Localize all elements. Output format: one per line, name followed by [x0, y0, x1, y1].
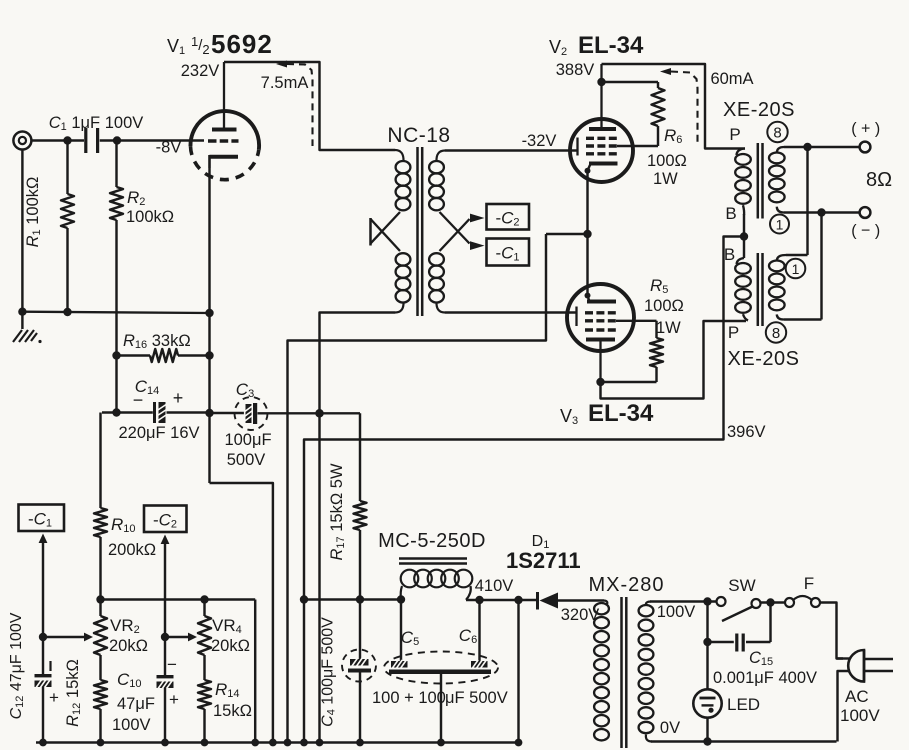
label VR4 — [211, 616, 250, 655]
svg-text:388V: 388V — [556, 61, 595, 79]
choke MC-5-250D — [399, 559, 472, 600]
svg-text:MX-280: MX-280 — [588, 574, 664, 596]
svg-text:μF 500V: μF 500V — [445, 689, 508, 707]
lamp LED — [693, 602, 721, 742]
label terminal 1 upper — [770, 215, 789, 234]
svg-text:5692: 5692 — [211, 29, 273, 59]
label C4 — [320, 617, 338, 727]
capacitor C12 — [35, 637, 52, 743]
svg-text:+: + — [169, 690, 179, 709]
tube V1 cathode — [210, 155, 239, 168]
svg-text:410V: 410V — [475, 577, 514, 595]
tube V2 plate — [589, 64, 616, 129]
tube V3 cathode — [585, 293, 617, 302]
label D1 — [506, 533, 581, 573]
MX-280 core — [622, 597, 627, 748]
svg-text:232V: 232V — [181, 62, 220, 80]
AC plug — [837, 650, 894, 682]
MX-280 HV winding — [594, 601, 609, 741]
wire SW to fuse — [761, 598, 786, 606]
NC-18 core — [418, 147, 423, 316]
label 410V — [475, 577, 514, 595]
fuse F — [785, 596, 820, 607]
svg-text:R16 33kΩ: R16 33kΩ — [123, 332, 191, 351]
svg-text:100Ω: 100Ω — [647, 152, 687, 170]
svg-text:-8V: -8V — [156, 139, 182, 157]
NC-18 secondary centre taps — [440, 212, 485, 251]
svg-text:( + ): ( + ) — [851, 121, 880, 138]
diode D1 — [538, 592, 605, 610]
XE-20S lower core — [758, 253, 763, 326]
label 0V — [660, 719, 680, 737]
svg-text:MC-5-250D: MC-5-250D — [378, 530, 486, 552]
svg-text:P: P — [729, 125, 740, 144]
label XE-20S upper — [723, 99, 795, 121]
tube V2 grids — [578, 138, 618, 156]
svg-text:1: 1 — [792, 261, 800, 277]
wire B+ rail — [304, 595, 405, 603]
NC-18 secondary winding — [429, 161, 444, 302]
label NC-18 — [387, 124, 450, 147]
capacitor C6 — [478, 600, 480, 661]
label C12 marks — [49, 661, 59, 707]
label V3 — [560, 400, 654, 427]
label SW — [728, 576, 755, 595]
tube V2 cathode — [585, 164, 618, 174]
switch SW — [717, 597, 761, 621]
wire -C2 arrow — [161, 535, 170, 642]
wire 410V node — [466, 596, 536, 604]
net box -C1 (grid return) — [487, 239, 530, 266]
ground symbol — [13, 330, 42, 343]
resistor R12 — [94, 680, 107, 743]
svg-text:20kΩ: 20kΩ — [109, 637, 148, 655]
svg-text:500V: 500V — [227, 451, 266, 469]
label VR2 — [109, 616, 148, 655]
svg-text:( − ): ( − ) — [851, 223, 880, 240]
svg-text:8Ω: 8Ω — [866, 169, 892, 191]
XE-20S upper secondary — [769, 153, 785, 203]
VR2 wiper arrow — [43, 633, 93, 642]
tube V3 grids — [577, 307, 617, 331]
wire 0V line — [651, 737, 837, 745]
wire plug return — [838, 671, 851, 742]
wire ground bus — [22, 308, 209, 316]
label C10 marks — [167, 655, 179, 709]
svg-text:0.001μF 400V: 0.001μF 400V — [713, 669, 817, 687]
svg-text:F: F — [804, 574, 814, 593]
wire lower secondary bottom — [777, 213, 822, 320]
label V1 — [167, 29, 273, 59]
resistor R17 — [354, 413, 367, 603]
current arrow 7.5mA — [276, 61, 313, 147]
wire upper secondary to minus — [777, 207, 860, 217]
label P lower — [728, 323, 739, 342]
label R16 — [123, 332, 191, 351]
label (-) — [851, 223, 880, 240]
svg-text:396V: 396V — [727, 423, 766, 441]
wire V1 plate feed — [224, 62, 395, 150]
output terminal minus — [860, 207, 871, 218]
resistor R10 — [94, 413, 107, 600]
svg-text:LED: LED — [727, 695, 760, 714]
wire input jack to C1 — [32, 136, 85, 144]
label P upper — [729, 125, 740, 144]
svg-text:100V: 100V — [657, 603, 696, 621]
label R1 — [24, 177, 43, 248]
label -8V — [156, 139, 182, 157]
label C10 — [112, 670, 155, 734]
capacitor C10 — [157, 637, 174, 743]
current arrow 60mA — [660, 68, 698, 143]
capacitor C15 — [703, 603, 770, 652]
svg-text:100V: 100V — [112, 716, 151, 734]
label R10 — [108, 515, 156, 559]
XE-20S lower secondary — [769, 261, 785, 311]
label C5 — [401, 628, 419, 648]
wire NC-18 primary bottom drop — [315, 313, 395, 743]
label C12 — [8, 612, 26, 719]
label R5 — [644, 276, 684, 337]
label C15 — [749, 649, 773, 668]
wire bias top rail — [96, 595, 255, 603]
wire lower secondary top — [777, 147, 808, 261]
capacitor C1 — [86, 128, 98, 153]
svg-text:20kΩ: 20kΩ — [211, 637, 250, 655]
label 7.5mA — [261, 74, 309, 92]
input jack J1 — [13, 132, 31, 150]
label MC-5-250D — [378, 530, 486, 552]
wire B link — [740, 214, 748, 258]
svg-text:100 + 100: 100 + 100 — [372, 689, 446, 707]
label R17 — [328, 463, 347, 560]
wire jack ground drop — [18, 150, 26, 330]
svg-text:100Ω: 100Ω — [644, 297, 684, 315]
NC-18 primary centre tap — [371, 212, 401, 251]
svg-text:XE-20S: XE-20S — [728, 348, 800, 370]
label -32V — [522, 132, 557, 150]
wire bottom rail — [36, 739, 522, 747]
VR4 wiper arrow — [165, 633, 197, 642]
svg-text:+: + — [173, 388, 184, 408]
resistor R5 — [596, 321, 663, 386]
wire upper secondary to plus — [777, 143, 860, 153]
label MX-280 — [588, 574, 664, 596]
svg-text:8: 8 — [772, 325, 780, 342]
net box -C1 (bias feed) — [19, 505, 65, 532]
XE-20S lower primary — [735, 258, 751, 321]
label C1 value — [49, 114, 144, 133]
svg-text:-32V: -32V — [522, 132, 557, 150]
svg-text:100μF: 100μF — [224, 431, 271, 449]
svg-text:R1 100kΩ: R1 100kΩ — [24, 177, 43, 248]
wire cathode column — [205, 309, 213, 483]
wire -C1 arrow — [39, 534, 48, 642]
svg-text:B: B — [725, 204, 736, 223]
resistor R14 — [198, 680, 211, 743]
label B upper — [725, 204, 736, 223]
label R12 — [64, 659, 83, 727]
label 100V winding — [657, 603, 696, 621]
NC-18 secondary top lead — [436, 151, 445, 162]
potentiometer VR2 — [94, 600, 107, 681]
svg-text:EL-34: EL-34 — [578, 32, 644, 59]
svg-text:15kΩ: 15kΩ — [213, 702, 252, 720]
svg-text:220μF 16V: 220μF 16V — [118, 424, 199, 442]
svg-text:EL-34: EL-34 — [588, 400, 654, 427]
resistor R1 — [61, 141, 74, 313]
label C3 — [224, 380, 271, 469]
svg-text:AC: AC — [845, 687, 869, 706]
capacitor C4 — [342, 600, 376, 743]
wire bias rail drop — [254, 600, 256, 743]
svg-text:+: + — [49, 688, 59, 707]
label 320V — [561, 606, 600, 624]
svg-text:200kΩ: 200kΩ — [108, 541, 156, 559]
wire B junction to 396V — [300, 237, 744, 743]
capacitor C3 — [210, 397, 361, 430]
svg-text:0V: 0V — [660, 719, 680, 737]
tube V3 envelope — [567, 284, 634, 351]
label F — [804, 574, 814, 593]
svg-text:100kΩ: 100kΩ — [126, 208, 174, 226]
label LED — [727, 695, 760, 714]
wire C1 to V1 grid — [100, 136, 204, 144]
wire V2 plate feed — [602, 64, 746, 149]
wire cathode tie — [546, 171, 592, 296]
wire ground bus drop — [210, 483, 273, 743]
tube V2 envelope — [570, 119, 633, 182]
wire mains top — [650, 597, 717, 605]
svg-text:P: P — [728, 323, 739, 342]
net box -C2 (grid return) — [487, 204, 530, 230]
svg-text:1S2711: 1S2711 — [506, 548, 581, 573]
resistor R6 — [602, 82, 665, 146]
svg-text:SW: SW — [728, 576, 755, 595]
label 388V — [556, 61, 595, 79]
label 232V — [181, 62, 220, 80]
label 396V — [727, 423, 766, 441]
svg-text:7.5mA: 7.5mA — [261, 74, 309, 92]
resistor R16 — [112, 349, 209, 362]
label C14 — [118, 377, 199, 442]
svg-text:−: − — [167, 655, 177, 674]
svg-text:XE-20S: XE-20S — [723, 99, 795, 121]
svg-text:1: 1 — [776, 217, 784, 233]
svg-text:100V: 100V — [840, 706, 880, 725]
svg-text:320V: 320V — [561, 606, 600, 624]
resistor R2 — [110, 141, 123, 413]
svg-text:R12 15kΩ: R12 15kΩ — [64, 659, 83, 727]
label R2 — [126, 188, 174, 226]
net box -C2 (bias feed) — [144, 506, 187, 533]
wire V1 cathode to ground bus — [208, 168, 210, 313]
wire cathode to bias network — [288, 234, 547, 743]
label terminal 8 lower — [766, 322, 786, 342]
svg-text:1W: 1W — [653, 170, 678, 188]
NC-18 secondary bottom lead — [436, 302, 445, 313]
XE-20S upper primary — [735, 149, 751, 216]
label terminal 1 lower — [786, 259, 806, 279]
wire V3 plate to lower P — [601, 321, 747, 399]
wire 410V drop — [517, 600, 519, 743]
MX-280 mains winding — [639, 602, 654, 742]
label V2 — [549, 32, 644, 59]
label C6 — [459, 626, 477, 646]
svg-text:47μF: 47μF — [117, 695, 155, 713]
capacitor C14 — [102, 402, 210, 423]
NC-18 primary winding — [396, 161, 411, 302]
svg-text:60mA: 60mA — [710, 70, 753, 88]
svg-text:NC-18: NC-18 — [387, 124, 450, 147]
NC-18 primary top lead — [395, 150, 404, 162]
label XE-20S lower — [728, 348, 800, 370]
svg-text:B: B — [724, 245, 735, 264]
wire fuse to plug — [820, 603, 843, 659]
capacitor block C5 C6 — [384, 652, 498, 743]
label C15 value — [713, 669, 817, 687]
tube V1 plate — [212, 62, 237, 130]
label R6 — [647, 126, 687, 188]
svg-text:1W: 1W — [656, 319, 681, 337]
label C5C6 value — [372, 689, 508, 707]
label (+) — [851, 121, 880, 138]
label B lower — [724, 245, 735, 264]
NC-18 primary bottom lead — [395, 302, 404, 313]
tube V1 envelope (half 5692) — [190, 111, 259, 180]
wire NC-18 to V2 grid — [445, 149, 578, 151]
label 8 ohm — [866, 169, 892, 191]
svg-text:8: 8 — [773, 125, 781, 142]
wire NC-18 to V3 grid — [445, 311, 577, 313]
XE-20S upper core — [758, 143, 763, 219]
label R14 — [213, 680, 252, 720]
tube V3 plate — [586, 340, 615, 383]
tube V1 grid — [208, 139, 239, 142]
svg-text:−: − — [133, 390, 144, 410]
output terminal plus — [860, 142, 871, 153]
label terminal 8 upper — [767, 122, 787, 142]
potentiometer VR4 — [198, 600, 211, 681]
label AC 100V — [840, 687, 880, 725]
capacitor C5 — [400, 600, 402, 662]
label 60mA — [710, 70, 753, 88]
